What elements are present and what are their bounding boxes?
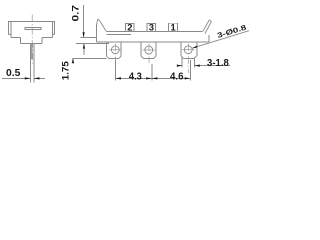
dim 0.5 right arrowhead — [34, 77, 40, 79]
svg-text:4.6: 4.6 — [170, 72, 184, 83]
leader 3-phi0.8 line — [192, 31, 249, 49]
dim 4.3 left arrowhead — [116, 77, 122, 79]
dim 1.75 extension line — [73, 57, 107, 59]
front view tab 3 left chamfer — [181, 56, 184, 59]
svg-text:0.7: 0.7 — [70, 5, 80, 22]
side view step bottom — [20, 43, 42, 45]
front view right end vertical — [208, 35, 210, 42]
side view bottom shelf left — [11, 37, 20, 39]
side view left outer wall cap — [9, 34, 11, 36]
dim middle extension — [151, 64, 153, 80]
side view step right wall — [41, 38, 43, 44]
front view left wing tip edge — [96, 19, 97, 25]
dim 1.75 up arrowhead — [72, 58, 74, 63]
front view tab 1 right edge — [120, 42, 122, 56]
side view pin inner contact right — [32, 44, 34, 59]
side view right outer wall cap — [52, 34, 54, 36]
svg-text:4.3: 4.3 — [129, 71, 142, 82]
hole 1 centerline — [114, 44, 116, 60]
hole 3 — [184, 46, 192, 54]
front view tab 2 right edge — [155, 42, 157, 56]
front view band top — [106, 30, 202, 32]
side view right inner wall — [51, 22, 53, 38]
side view slot — [25, 28, 41, 30]
front view band fold line — [106, 34, 131, 36]
side view bottom shelf right — [42, 37, 52, 39]
side view left inner wall — [10, 22, 12, 38]
front view right wing tip cap — [209, 20, 211, 22]
hole 3 crosshair — [182, 49, 195, 51]
dim 4.3 left extension — [114, 60, 116, 81]
dim 0.7 lower arrow tail — [83, 43, 85, 55]
pad number box 1 — [169, 22, 178, 33]
front view left wing inner slope — [100, 21, 107, 32]
dim 0.7 bottom extension line — [76, 42, 108, 44]
dim middle right arrowhead — [152, 77, 158, 79]
dim 0.7 tail vertical — [83, 5, 85, 37]
front view right wing outer slope — [205, 22, 212, 34]
side view step left wall — [19, 38, 21, 44]
front view tab 1 bottom — [109, 58, 119, 60]
dim 0.5 leader line left — [2, 77, 30, 79]
front view left wing tip cap — [98, 19, 100, 21]
front view band bottom — [96, 41, 208, 43]
side view centerline — [31, 15, 33, 65]
front view tab 2 left edge — [140, 42, 142, 56]
side view pin inner contact cap — [32, 58, 33, 60]
dim 4.6 right arrowhead — [185, 77, 191, 79]
front view tab 3 left edge — [180, 42, 182, 56]
hole 1 crosshair — [109, 49, 122, 51]
side view left outer wall — [8, 22, 10, 35]
side view housing top — [8, 21, 55, 23]
side view pin left edge — [29, 44, 31, 83]
hole 2 crosshair — [143, 49, 156, 51]
front view tab 2 bottom — [144, 58, 154, 60]
dim 0.5 left arrowhead — [25, 77, 31, 79]
hole 3 centerline — [187, 44, 189, 73]
dim middle left arrowhead — [146, 77, 152, 79]
dim 4.6 right extension — [189, 60, 191, 80]
hole 1 — [111, 46, 119, 54]
svg-text:3-1.8: 3-1.8 — [207, 58, 229, 69]
leader 3-phi0.8 arrowhead — [192, 45, 197, 48]
side view pin right edge — [33, 44, 35, 83]
dim 0.7 up arrowhead — [83, 43, 85, 48]
dim 3-1.8 right arrowhead — [195, 65, 200, 67]
dim 0.7 bottom extension tick — [107, 42, 109, 44]
dim 3-1.8 left arrowhead — [177, 65, 182, 67]
front view tab 3 right chamfer — [193, 56, 197, 59]
front view tab 1 right chamfer — [119, 56, 122, 59]
front view tab 1 left chamfer — [106, 56, 109, 59]
dim 3-1.8 right extension line — [193, 58, 195, 68]
hole 2 — [145, 46, 153, 54]
front view tab 3 right edge — [196, 42, 198, 56]
front view right wing inner slope — [203, 20, 210, 32]
svg-text:3-Ø0.8: 3-Ø0.8 — [216, 23, 247, 40]
svg-text:1: 1 — [170, 22, 175, 33]
dim 3-1.8 right tail — [194, 65, 230, 67]
front view tab 2 left chamfer — [141, 56, 144, 59]
dim 4.3 4.6 dimension line — [115, 77, 190, 79]
svg-text:0.5: 0.5 — [6, 68, 21, 79]
front view left end vertical — [95, 25, 97, 42]
side view right outer wall — [53, 22, 55, 35]
pad number box 3 — [147, 22, 156, 33]
front view tab 3 bottom — [184, 58, 194, 60]
side view pin inner contact left — [31, 44, 33, 59]
svg-text:3: 3 — [149, 22, 154, 33]
svg-text:2: 2 — [127, 22, 132, 33]
svg-text:1.75: 1.75 — [60, 61, 71, 80]
dim 1.75 arrow tail — [72, 58, 74, 62]
front view tab 1 left edge — [105, 42, 107, 56]
dim 3-1.8 left extension line — [181, 58, 183, 68]
dim 0.7 down arrowhead — [83, 32, 85, 37]
pad number box 2 — [125, 22, 134, 33]
hole 2 centerline — [148, 44, 150, 63]
dim 0.5 leader line right — [34, 77, 45, 79]
front view tab 2 right chamfer — [153, 56, 156, 59]
dim 3-1.8 left tail — [177, 65, 182, 67]
dim 0.7 top extension line — [80, 36, 96, 38]
